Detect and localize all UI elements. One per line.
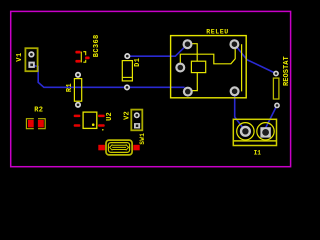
board outline: [11, 11, 291, 166]
R1 pad 2: [76, 103, 80, 107]
svg-text:SW1: SW1: [139, 133, 146, 145]
relay silk: coil to pad 4: [192, 73, 197, 91]
IC U2: [74, 112, 114, 131]
Q1 pad 1: [75, 51, 80, 54]
wire relay pad top-right to REOSTAT pad 1: [235, 44, 277, 73]
relay pad bottom-left: [184, 88, 192, 96]
relay silk: pad 1 to coil: [188, 44, 198, 62]
D1 cathode band: [122, 76, 132, 78]
REOSTAT pad 2: [275, 103, 279, 107]
Q1 outline left bar: [80, 52, 82, 63]
SW1 pad 2: [133, 145, 139, 151]
SW1 hatch lines: [112, 145, 126, 149]
REOSTAT body outline: [273, 78, 279, 99]
wire V1 pad2 to relay pad bottom-left (blue bottom-copper trace): [34, 66, 185, 88]
I1 body outline: [233, 119, 276, 145]
V1 outline: [25, 48, 37, 71]
diode D1: [122, 54, 142, 90]
relay silk: right contact bar: [241, 44, 243, 91]
I1 pad 2 silk circle: [257, 123, 274, 140]
U2 silk dot: [102, 129, 104, 131]
relay coil rectangle: [191, 61, 205, 72]
svg-text:I1: I1: [254, 150, 262, 157]
relay K1 RELEU: [171, 29, 247, 98]
svg-text:U2: U2: [106, 112, 114, 121]
svg-text:R1: R1: [66, 83, 74, 92]
wire REOSTAT pad 2 to I1 pad 2: [266, 106, 277, 132]
R2 outline left bracket: [26, 119, 33, 129]
D1 pad 1 (cathode): [125, 54, 129, 58]
transistor Q1 BC368: [75, 34, 101, 62]
U2 pad 3: [98, 124, 105, 127]
relay body outline: [171, 36, 247, 98]
I1 pad 1 (round): [241, 127, 250, 136]
resistor R1: [66, 73, 82, 107]
wire relay pad bottom-right to I1 pad 1: [235, 92, 246, 132]
I1 pad 2 (square): [260, 127, 270, 137]
U2 pad 2: [74, 124, 81, 127]
U2 pad 1: [74, 115, 81, 118]
relay pad top-left: [184, 40, 192, 48]
svg-text:RELEU: RELEU: [206, 29, 229, 36]
connector V2: [124, 110, 143, 131]
connector V1: [16, 48, 37, 71]
R1 pad 1: [76, 73, 80, 77]
svg-text:V2: V2: [124, 111, 132, 120]
Q1 pad 2: [75, 60, 80, 63]
SW1 pad 1: [98, 145, 105, 151]
D1 body outline: [122, 61, 132, 81]
D1 pad 2 (anode): [125, 85, 129, 89]
I1 inner bottom line: [233, 140, 276, 142]
R2 pad 1: [28, 120, 34, 128]
SW1 body outline: [106, 140, 132, 155]
R2 outline right bracket: [38, 119, 45, 129]
relay pad bottom-right: [231, 87, 239, 95]
svg-text:REOSTAT: REOSTAT: [283, 56, 291, 86]
svg-text:BC368: BC368: [93, 34, 101, 57]
U2 pin-1 dot: [92, 123, 95, 126]
relay pad mid-left (common): [176, 64, 184, 72]
R2 pad 2: [38, 120, 44, 128]
I1 pad 1 silk circle: [237, 123, 254, 140]
REOSTAT pad 1: [274, 71, 278, 75]
V2 pad 2 (round): [135, 113, 139, 117]
svg-text:D1: D1: [134, 57, 142, 66]
V1 pad 1 (square): [28, 62, 34, 68]
Q1 outline right brackets: [83, 52, 85, 63]
SW1 right chevron: [126, 145, 129, 151]
svg-text:R2: R2: [34, 106, 43, 114]
V2 outline: [131, 110, 142, 131]
connector I1: [233, 119, 276, 156]
relay silk: common pad to switch lever: [180, 48, 235, 68]
relay pad top-right: [231, 40, 239, 48]
SW1 inner outline: [108, 143, 129, 153]
V2 pad 1 (square): [134, 123, 140, 128]
Q1 pad 3: [85, 57, 90, 60]
switch SW1: [98, 133, 146, 155]
wire D1 top pad to relay pad top-left: [128, 44, 187, 56]
V1 pad 2 (round): [29, 52, 34, 57]
SW1 left chevron: [110, 145, 113, 151]
resistor R2: [26, 106, 45, 128]
U2 body outline: [83, 112, 97, 128]
connector REOSTAT: [273, 56, 290, 107]
svg-text:V1: V1: [16, 52, 24, 62]
R1 body outline: [74, 79, 81, 102]
U2 pad 4: [98, 115, 105, 118]
